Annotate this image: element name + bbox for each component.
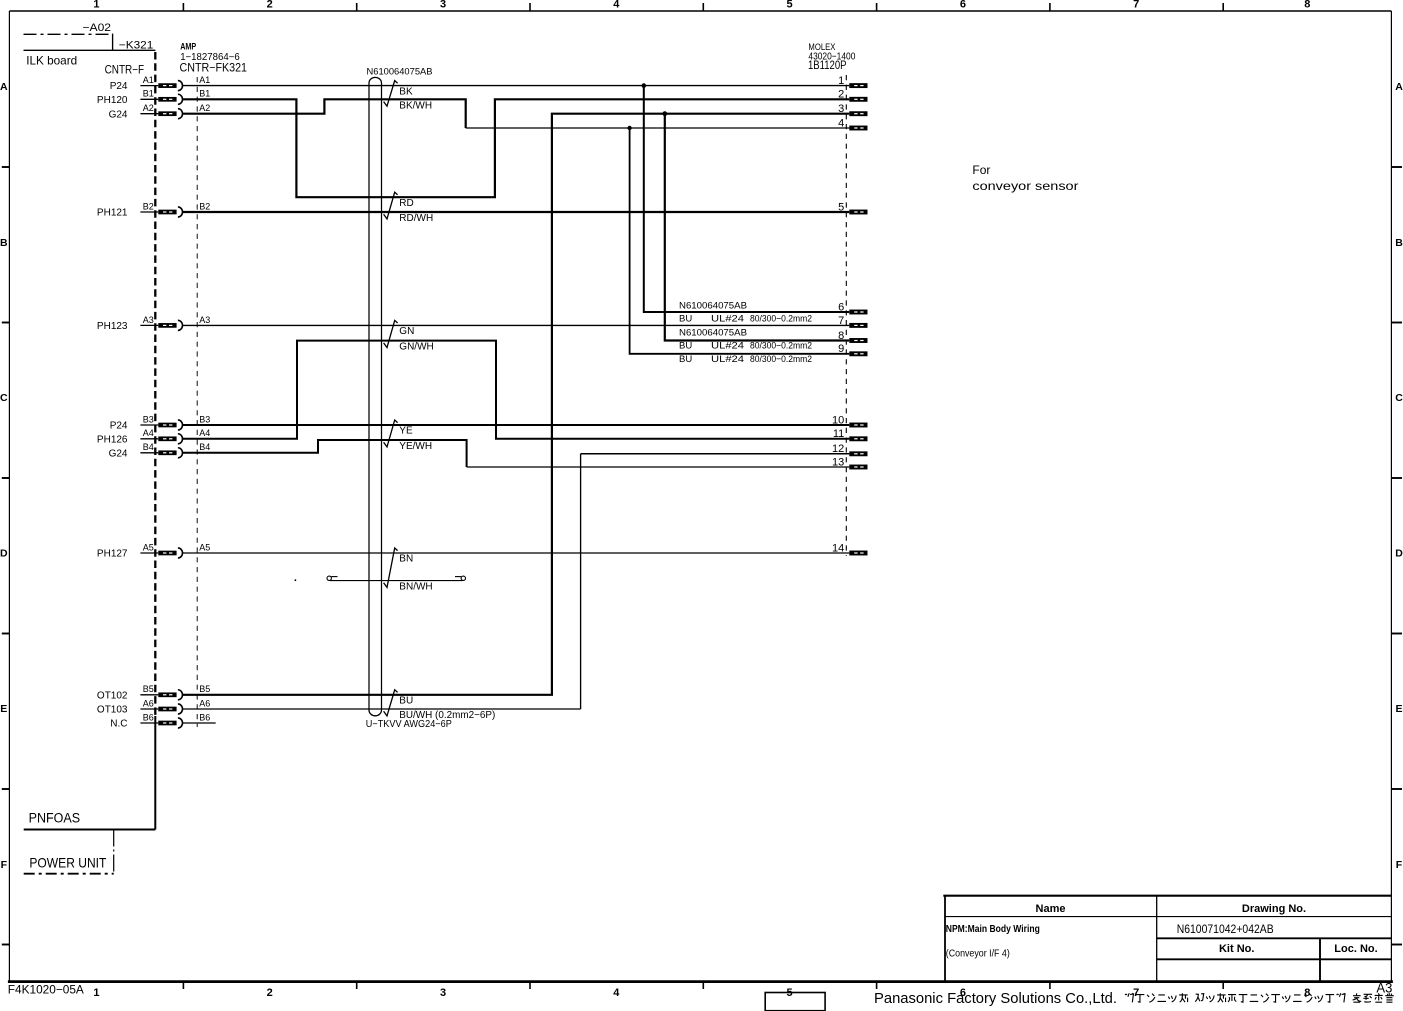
svg-text:1: 1 [93,0,99,10]
svg-text:PNFOAS: PNFOAS [29,811,81,826]
svg-text:POWER UNIT: POWER UNIT [29,855,106,871]
svg-text:B2: B2 [143,201,154,211]
svg-text:B6: B6 [199,712,210,722]
svg-text:PH120: PH120 [97,95,128,106]
svg-text:UL#24: UL#24 [711,354,744,365]
svg-text:BK: BK [399,86,413,97]
svg-text:A6: A6 [143,698,154,708]
svg-text:RD: RD [399,198,413,209]
svg-text:7: 7 [1133,0,1139,10]
svg-text:AMP: AMP [180,42,196,52]
svg-text:8: 8 [1304,987,1310,999]
svg-text:conveyor sensor: conveyor sensor [972,179,1078,193]
svg-text:F: F [1396,859,1403,871]
svg-text:BU: BU [679,314,692,325]
svg-text:(Conveyor I/F 4): (Conveyor I/F 4) [946,949,1010,960]
svg-text:UL#24: UL#24 [711,314,744,325]
svg-text:BN/WH: BN/WH [399,582,432,593]
svg-text:80/300−0.2mm2: 80/300−0.2mm2 [750,354,812,365]
svg-text:3: 3 [440,0,446,10]
svg-text:B1: B1 [199,89,210,99]
svg-text:B1: B1 [143,89,154,99]
svg-text:G24: G24 [109,109,128,120]
svg-text:GN: GN [399,326,414,337]
svg-text:Name: Name [1036,903,1066,915]
svg-text:4: 4 [613,0,620,10]
svg-text:1: 1 [93,987,99,999]
svg-text:A3: A3 [1376,981,1392,996]
svg-text:A: A [0,81,8,93]
svg-text:A3: A3 [199,315,210,325]
svg-text:Panasonic Factory Solutions Co: Panasonic Factory Solutions Co.,Ltd. [874,991,1117,1007]
svg-text:CNTR−FK321: CNTR−FK321 [180,62,248,74]
svg-text:−K321: −K321 [119,40,154,52]
svg-text:G24: G24 [109,448,128,459]
svg-text:A1: A1 [143,75,154,85]
svg-text:A: A [1395,81,1403,93]
svg-text:E: E [0,703,7,715]
svg-text:A3: A3 [143,315,154,325]
svg-text:U−TKVV AWG24−6P: U−TKVV AWG24−6P [366,719,452,730]
svg-text:C: C [1395,392,1403,404]
svg-text:2: 2 [267,0,273,10]
svg-text:PH121: PH121 [97,208,128,219]
svg-text:N.C: N.C [110,719,127,730]
svg-text:B3: B3 [199,414,210,424]
svg-text:5: 5 [787,0,793,10]
svg-text:F: F [1,859,8,871]
svg-text:B5: B5 [143,684,154,694]
svg-text:BK/WH: BK/WH [399,100,432,111]
svg-text:YE/WH: YE/WH [399,441,432,452]
svg-text:N610064075AB: N610064075AB [679,301,747,312]
svg-text:4: 4 [613,987,620,999]
svg-text:C: C [0,392,8,404]
svg-text:B: B [1395,237,1403,249]
svg-text:A1: A1 [199,75,210,85]
svg-text:PH127: PH127 [97,549,128,560]
svg-text:P24: P24 [110,81,128,92]
svg-text:PH123: PH123 [97,321,128,332]
svg-text:80/300−0.2mm2: 80/300−0.2mm2 [750,314,812,325]
svg-text:A5: A5 [199,542,210,552]
svg-text:BU: BU [399,696,413,707]
svg-text:D: D [1395,548,1403,560]
svg-text:YE: YE [399,426,413,437]
svg-text:80/300−0.2mm2: 80/300−0.2mm2 [750,341,812,352]
svg-text:B4: B4 [143,442,154,452]
svg-text:OT102: OT102 [97,690,128,701]
svg-text:N610071042+042AB: N610071042+042AB [1177,924,1274,936]
svg-text:A5: A5 [143,542,154,552]
svg-text:RD/WH: RD/WH [399,213,433,224]
svg-text:For: For [972,163,990,177]
svg-text:F4K1020−05A: F4K1020−05A [8,982,84,996]
svg-text:BU: BU [679,341,692,352]
svg-text:ILK board: ILK board [26,54,77,68]
svg-text:1B1120P: 1B1120P [808,58,847,72]
svg-text:3: 3 [440,987,446,999]
svg-text:GN/WH: GN/WH [399,342,433,353]
svg-text:7: 7 [1133,987,1139,999]
svg-text:1−1827864−6: 1−1827864−6 [180,52,240,63]
svg-text:PH126: PH126 [97,434,128,445]
svg-text:8: 8 [1304,0,1310,10]
svg-text:B2: B2 [199,201,210,211]
svg-text:N610064075AB: N610064075AB [679,328,747,339]
svg-text:A4: A4 [199,428,210,438]
svg-text:A2: A2 [143,103,154,113]
svg-text:BN: BN [399,554,413,565]
svg-text:B6: B6 [143,712,154,722]
svg-text:D: D [0,548,8,560]
svg-text:Loc. No.: Loc. No. [1334,943,1377,955]
svg-text:Drawing No.: Drawing No. [1242,903,1306,915]
svg-text:B4: B4 [199,442,210,452]
svg-text:−A02: −A02 [83,22,112,34]
svg-text:OT103: OT103 [97,705,128,716]
svg-text:CNTR−F: CNTR−F [105,64,145,76]
svg-text:A2: A2 [199,103,210,113]
svg-text:Kit No.: Kit No. [1219,943,1254,955]
svg-text:6: 6 [960,0,966,10]
svg-text:B5: B5 [199,684,210,694]
svg-text:UL#24: UL#24 [711,341,744,352]
svg-text:A6: A6 [199,698,210,708]
svg-text:N610064075AB: N610064075AB [367,67,433,78]
svg-text:B: B [0,237,8,249]
svg-text:NPM:Main Body Wiring: NPM:Main Body Wiring [946,924,1040,935]
svg-text:2: 2 [267,987,273,999]
svg-text:P24: P24 [110,421,128,432]
svg-text:E: E [1395,703,1402,715]
svg-text:B3: B3 [143,414,154,424]
svg-text:BU: BU [679,354,692,365]
svg-text:A4: A4 [143,428,154,438]
